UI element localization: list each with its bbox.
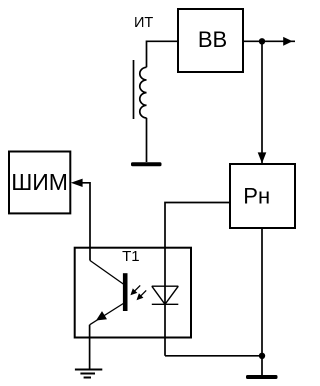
wire node to ground bbox=[261, 356, 263, 375]
light arrow 1 bbox=[132, 285, 141, 294]
phototransistor base bar bbox=[123, 273, 128, 311]
earth ground line 2 bbox=[80, 373, 95, 375]
svg-text:ИТ: ИТ bbox=[134, 15, 153, 31]
emitter arrowhead bbox=[96, 311, 107, 320]
wire emitter to ground bbox=[89, 325, 91, 370]
light arrow 2 bbox=[138, 290, 147, 299]
ground bar under coil bbox=[131, 162, 162, 166]
wire coil bottom to ground bbox=[146, 118, 148, 162]
junction node top bbox=[259, 38, 265, 44]
earth ground line 1 bbox=[75, 369, 102, 371]
arrow right (output) bbox=[283, 37, 292, 46]
LED triangle sides bbox=[152, 286, 179, 304]
inductor core line bbox=[133, 60, 135, 119]
arrow down into Rn bbox=[258, 152, 267, 163]
svg-text:Т1: Т1 bbox=[122, 248, 140, 265]
block SHIM (PWM) bbox=[9, 152, 70, 214]
phototransistor collector line bbox=[90, 261, 123, 285]
wire Rn-left to LED anode branch bbox=[165, 203, 230, 356]
wire Rn bottom to node bbox=[261, 228, 263, 356]
svg-text:Рн: Рн bbox=[243, 184, 270, 209]
wire node to Rn top bbox=[261, 41, 263, 163]
LED cathode bar bbox=[152, 303, 179, 305]
phototransistor emitter line bbox=[90, 304, 124, 325]
inductor L1 coil bbox=[140, 67, 147, 118]
wire feedback to SHIM bbox=[82, 183, 90, 261]
svg-text:ШИМ: ШИМ bbox=[11, 169, 68, 195]
wire BB-right to output arrow bbox=[243, 40, 295, 42]
block BB (high-voltage unit) bbox=[178, 9, 243, 72]
block Rn (load) bbox=[230, 164, 295, 228]
ground bar bottom right bbox=[246, 375, 278, 379]
earth ground line 3 bbox=[84, 377, 91, 379]
svg-text:ВВ: ВВ bbox=[198, 27, 227, 52]
LED anode top bar bbox=[152, 285, 179, 287]
wire LED cathode to bottom node bbox=[165, 355, 262, 357]
arrow left into SHIM bbox=[71, 179, 83, 187]
optocoupler box T1 bbox=[75, 248, 191, 338]
junction node bottom bbox=[259, 353, 265, 359]
wire BB-left to coil top bbox=[147, 41, 179, 67]
